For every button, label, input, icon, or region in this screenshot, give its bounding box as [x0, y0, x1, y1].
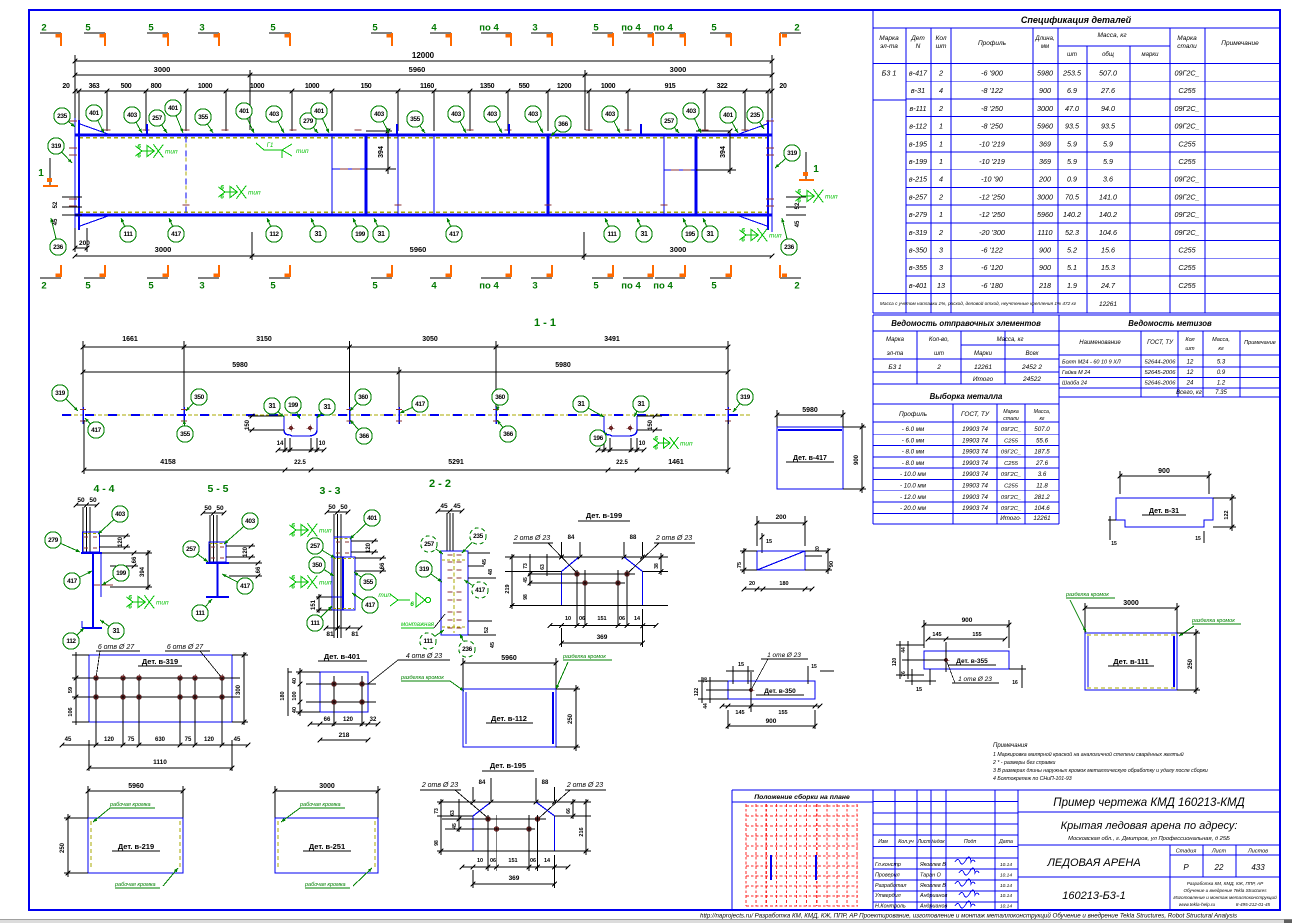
- svg-text:2 отв Ø 23: 2 отв Ø 23: [566, 782, 603, 789]
- svg-text:10.14: 10.14: [1000, 872, 1012, 878]
- 1-1 left pocket channel: [284, 416, 317, 436]
- svg-text:5: 5: [85, 281, 91, 292]
- svg-text:тип: тип: [769, 233, 782, 240]
- svg-text:363: 363: [89, 83, 100, 90]
- svg-text:106: 106: [68, 707, 74, 716]
- svg-text:81: 81: [351, 631, 359, 638]
- svg-text:122: 122: [694, 688, 700, 697]
- svg-text:С255: С255: [1178, 246, 1196, 255]
- stiffener connection right pair: [664, 169, 696, 171]
- svg-text:19903 74: 19903 74: [962, 449, 988, 456]
- svg-text:6: 6: [291, 523, 295, 530]
- svg-text:111: 111: [311, 620, 321, 627]
- svg-text:Р: Р: [1183, 863, 1189, 872]
- svg-text:195: 195: [685, 231, 695, 238]
- svg-text:218: 218: [1038, 281, 1051, 290]
- svg-text:Дет. в-401: Дет. в-401: [324, 652, 360, 661]
- detail v-355 right dim 16: [1009, 668, 1026, 670]
- svg-text:Марка: Марка: [886, 337, 905, 343]
- 2-2 main box: [441, 551, 468, 635]
- detail v-319 bottom dims: [62, 744, 248, 746]
- svg-text:по 4: по 4: [621, 23, 641, 34]
- svg-text:Марки: Марки: [974, 351, 993, 357]
- svg-text:С255: С255: [1004, 461, 1019, 467]
- svg-text:разделка кромок: разделка кромок: [562, 654, 606, 660]
- svg-text:06: 06: [579, 616, 585, 622]
- svg-text:5.9: 5.9: [1067, 139, 1077, 148]
- svg-text:Наименование: Наименование: [1079, 340, 1121, 346]
- title area main: [1017, 790, 1019, 910]
- svg-text:369: 369: [1039, 157, 1051, 166]
- svg-text:06: 06: [490, 858, 496, 864]
- detail v-199 group: [505, 511, 695, 647]
- svg-text:-6 '120: -6 '120: [981, 263, 1003, 272]
- svg-text:-12 '250: -12 '250: [979, 192, 1005, 201]
- svg-text:тип: тип: [319, 580, 332, 587]
- detail v-319 total dim 1110: [88, 740, 90, 771]
- 4-4 dim 120: [99, 535, 130, 537]
- svg-text:52644-2006: 52644-2006: [1145, 360, 1177, 366]
- detail v-195 top dims 84 88: [472, 787, 474, 801]
- svg-text:15: 15: [811, 664, 817, 670]
- spec table footer: [873, 312, 1280, 314]
- detail v-199 top dims 84 88: [561, 542, 563, 556]
- svg-text:шт: шт: [1067, 52, 1077, 58]
- svg-text:в-350: в-350: [909, 246, 927, 255]
- svg-text:1661: 1661: [122, 336, 138, 343]
- svg-text:394: 394: [140, 566, 146, 577]
- svg-text:2: 2: [938, 69, 943, 78]
- svg-text:250: 250: [60, 842, 66, 853]
- svg-text:Лист: Лист: [1211, 849, 1227, 855]
- svg-text:322: 322: [717, 83, 728, 90]
- svg-text:1000: 1000: [250, 83, 265, 90]
- svg-text:401: 401: [314, 108, 324, 115]
- svg-text:эл-та: эл-та: [887, 351, 904, 357]
- svg-text:73: 73: [434, 808, 440, 814]
- svg-text:151: 151: [597, 616, 606, 622]
- detail v-195 right dims: [555, 815, 591, 817]
- svg-text:900: 900: [766, 718, 777, 725]
- svg-text:20: 20: [779, 83, 787, 90]
- svg-text:8-495-212-01-45: 8-495-212-01-45: [1236, 902, 1271, 907]
- svg-text:50: 50: [204, 505, 212, 512]
- svg-text:47.0: 47.0: [1065, 104, 1079, 113]
- detail circles below beam: [51, 218, 56, 239]
- svg-text:в-195: в-195: [909, 139, 928, 148]
- svg-text:06: 06: [530, 858, 536, 864]
- svg-text:Гайка М 24: Гайка М 24: [1062, 369, 1090, 376]
- 2-2 bolt rows: [447, 554, 452, 556]
- svg-text:19903 74: 19903 74: [962, 483, 988, 490]
- svg-text:Выборка металла: Выборка металла: [930, 392, 1003, 401]
- svg-text:в-257: в-257: [909, 192, 928, 201]
- svg-text:31: 31: [707, 231, 714, 238]
- svg-text:355: 355: [180, 431, 190, 438]
- svg-text:в-199: в-199: [909, 157, 927, 166]
- svg-text:1000: 1000: [198, 83, 213, 90]
- svg-text:319: 319: [51, 143, 61, 150]
- svg-text:тип: тип: [165, 149, 178, 156]
- svg-text:в-111: в-111: [909, 104, 926, 113]
- svg-text:2: 2: [794, 23, 799, 34]
- detail v-401 left dims: [296, 671, 320, 673]
- svg-text:900: 900: [1039, 263, 1051, 272]
- svg-text:50: 50: [328, 504, 336, 511]
- svg-text:40: 40: [292, 707, 298, 713]
- svg-text:15: 15: [738, 662, 744, 668]
- svg-text:630: 630: [155, 737, 166, 743]
- svg-text:Ведомость отправочных элементо: Ведомость отправочных элементов: [891, 319, 1041, 328]
- svg-text:417: 417: [171, 231, 181, 238]
- svg-text:Кол-во,: Кол-во,: [929, 337, 949, 343]
- svg-text:09Г2С_: 09Г2С_: [1174, 122, 1199, 131]
- 1-1 right pocket weld: [659, 442, 670, 444]
- detail v-31 plate: [1116, 498, 1213, 527]
- svg-text:1: 1: [939, 139, 943, 148]
- svg-text:Таран О: Таран О: [920, 872, 942, 878]
- svg-text:403: 403: [245, 518, 255, 525]
- svg-text:2: 2: [938, 192, 943, 201]
- svg-text:31: 31: [641, 231, 648, 238]
- svg-text:187.5: 187.5: [1034, 449, 1050, 456]
- svg-text:180: 180: [779, 581, 788, 587]
- beam top flange: [75, 134, 772, 137]
- svg-text:88: 88: [542, 780, 549, 786]
- svg-text:3: 3: [532, 281, 537, 292]
- svg-text:06: 06: [619, 616, 625, 622]
- svg-text:40: 40: [292, 678, 298, 684]
- 3-3 weld bottom: [296, 581, 307, 583]
- 1-1 left pocket circles: [278, 412, 284, 417]
- svg-text:5: 5: [148, 281, 154, 292]
- svg-text:5960: 5960: [501, 655, 517, 662]
- detail v-31 right dim 122: [1213, 497, 1236, 499]
- svg-text:45: 45: [523, 577, 529, 583]
- svg-text:4: 4: [939, 175, 943, 184]
- svg-text:45: 45: [490, 642, 496, 648]
- beam left end gusset diagonals: [80, 124, 108, 134]
- svg-text:45: 45: [440, 503, 448, 510]
- svg-text:3: 3: [939, 246, 943, 255]
- svg-text:155: 155: [778, 710, 787, 716]
- svg-text:31: 31: [578, 401, 585, 408]
- svg-text:Дет. в-31: Дет. в-31: [1149, 508, 1179, 515]
- metal selection table: [873, 384, 1059, 524]
- svg-text:7.35: 7.35: [1215, 390, 1227, 396]
- svg-text:3: 3: [532, 23, 537, 34]
- svg-text:2 отв Ø 23: 2 отв Ø 23: [655, 535, 692, 542]
- svg-text:1461: 1461: [668, 459, 684, 466]
- svg-text:шт: шт: [936, 43, 947, 50]
- svg-text:12261: 12261: [1033, 515, 1050, 522]
- svg-text:3000: 3000: [670, 65, 687, 74]
- svg-text:Дет. в-319: Дет. в-319: [142, 657, 178, 666]
- 3-3 dim 66: [355, 557, 386, 559]
- svg-text:257: 257: [186, 546, 196, 553]
- bottom dimension row 3000 5960 3000: [251, 232, 253, 260]
- svg-text:Московская обл., г. Дмитров, у: Московская обл., г. Дмитров, ул Професси…: [1068, 836, 1230, 842]
- svg-text:09Г2С_: 09Г2С_: [1174, 104, 1199, 113]
- svg-text:915: 915: [665, 83, 676, 90]
- svg-text:507.0: 507.0: [1034, 426, 1050, 433]
- 1-1 right pocket channel: [604, 416, 637, 436]
- svg-text:13: 13: [937, 281, 945, 290]
- svg-text:900: 900: [1158, 468, 1170, 475]
- svg-text:10.14: 10.14: [1000, 883, 1012, 889]
- svg-text:257: 257: [424, 541, 434, 548]
- svg-text:20: 20: [815, 546, 821, 552]
- 3-3 top channel box: [334, 537, 351, 557]
- svg-text:5980: 5980: [232, 362, 248, 369]
- svg-text:403: 403: [451, 111, 461, 118]
- svg-text:3000: 3000: [155, 245, 172, 254]
- detail v-112 dim 5960: [462, 658, 464, 692]
- svg-text:120: 120: [892, 658, 898, 667]
- svg-text:19903 74: 19903 74: [962, 494, 988, 501]
- svg-text:- 6.0 мм: - 6.0 мм: [902, 437, 925, 444]
- svg-text:09Г2С_: 09Г2С_: [1001, 472, 1021, 478]
- svg-text:369: 369: [509, 875, 520, 882]
- svg-text:Проверил: Проверил: [875, 872, 900, 878]
- svg-text:84: 84: [568, 535, 575, 541]
- svg-text:417: 417: [365, 602, 375, 609]
- svg-text:12261: 12261: [974, 364, 992, 371]
- detail dimension row: [75, 90, 772, 92]
- svg-text:6: 6: [137, 153, 141, 160]
- svg-text:66: 66: [256, 566, 262, 573]
- fasteners table: [1059, 315, 1280, 397]
- svg-text:417: 417: [91, 427, 101, 434]
- svg-text:48: 48: [488, 569, 494, 575]
- svg-text:31: 31: [638, 401, 645, 408]
- 2-2 center weld line: [453, 553, 455, 633]
- svg-text:5.3: 5.3: [1217, 360, 1226, 366]
- svg-text:3: 3: [199, 281, 204, 292]
- 4-4 web: [92, 553, 94, 628]
- gusset plate: [757, 551, 805, 570]
- svg-text:в-279: в-279: [909, 210, 927, 219]
- svg-text:4: 4: [939, 86, 943, 95]
- svg-text:Андрианов: Андрианов: [919, 893, 948, 899]
- svg-text:рабочая кромка: рабочая кромка: [109, 802, 151, 808]
- svg-text:417: 417: [240, 583, 250, 590]
- svg-text:Б3 1: Б3 1: [888, 364, 902, 371]
- svg-text:401: 401: [239, 108, 249, 115]
- svg-text:75: 75: [185, 737, 192, 743]
- svg-text:5: 5: [148, 23, 154, 34]
- svg-text:5.9: 5.9: [1103, 157, 1113, 166]
- svg-text:319: 319: [740, 394, 750, 401]
- svg-text:403: 403: [115, 511, 125, 518]
- 3-3 weld top: [296, 529, 307, 531]
- svg-text:разделка кромок: разделка кромок: [1191, 618, 1235, 624]
- svg-text:-6 '122: -6 '122: [981, 246, 1003, 255]
- 1-1 member circles: [66, 399, 78, 411]
- svg-text:5: 5: [270, 281, 276, 292]
- svg-text:по 4: по 4: [479, 281, 499, 292]
- svg-text:09Г2С_: 09Г2С_: [1174, 69, 1199, 78]
- svg-text:12: 12: [1187, 370, 1194, 376]
- svg-text:4158: 4158: [160, 459, 176, 466]
- svg-text:монтажная: монтажная: [401, 622, 435, 628]
- svg-text:250: 250: [568, 713, 574, 724]
- svg-text:1000: 1000: [305, 83, 320, 90]
- spec table row lines: [906, 80, 1280, 82]
- svg-text:5: 5: [372, 23, 378, 34]
- svg-text:55.6: 55.6: [1036, 437, 1049, 444]
- 5-5 dim 120: [226, 545, 255, 547]
- svg-text:в-319: в-319: [909, 228, 927, 237]
- svg-text:5980: 5980: [1037, 69, 1053, 78]
- detail v-350 plate: [728, 681, 815, 699]
- detail v-111 plate: [1085, 633, 1177, 690]
- svg-text:4 Болтокрепеж по СНиП-101-93: 4 Болтокрепеж по СНиП-101-93: [993, 776, 1072, 782]
- assembly position red grid: [745, 804, 747, 906]
- detail v-199 total 369: [561, 628, 563, 647]
- svg-text:319: 319: [55, 390, 65, 397]
- svg-text:417: 417: [415, 401, 425, 408]
- svg-text:22: 22: [1214, 863, 1224, 872]
- detail v-350 top dims: [732, 666, 734, 684]
- svg-text:200: 200: [1038, 175, 1051, 184]
- signature table: [894, 790, 896, 910]
- svg-text:С255: С255: [1178, 157, 1196, 166]
- svg-text:4: 4: [431, 281, 437, 292]
- svg-text:550: 550: [519, 83, 530, 90]
- svg-text:250: 250: [1188, 658, 1194, 669]
- svg-text:112: 112: [269, 231, 279, 238]
- svg-text:5291: 5291: [448, 459, 464, 466]
- 3-3 circles: [350, 524, 366, 539]
- svg-text:Спецификация деталей: Спецификация деталей: [1021, 15, 1132, 25]
- svg-text:366: 366: [359, 433, 369, 440]
- svg-text:31: 31: [113, 628, 120, 635]
- svg-text:350: 350: [194, 394, 204, 401]
- section cut 1 left: [49, 158, 51, 186]
- gusset dim 200: [756, 516, 758, 546]
- svg-text:09Г2С_: 09Г2С_: [1174, 192, 1199, 201]
- svg-text:по 4: по 4: [621, 281, 641, 292]
- svg-text:120: 120: [118, 536, 124, 547]
- svg-text:09Г2С_: 09Г2С_: [1174, 228, 1199, 237]
- svg-text:52.3: 52.3: [1065, 228, 1079, 237]
- svg-text:- 8.0 мм: - 8.0 мм: [902, 449, 925, 456]
- svg-text:14: 14: [277, 441, 284, 447]
- section 3-3 group: [289, 485, 386, 638]
- svg-text:Масса, кг: Масса, кг: [1097, 32, 1127, 39]
- 4-4 top flange line: [81, 552, 102, 554]
- svg-text:300: 300: [236, 684, 242, 695]
- 4-4 dim 50 50: [76, 504, 97, 506]
- detail v-401 bolts: [332, 682, 337, 687]
- svg-text:401: 401: [89, 110, 99, 117]
- svg-text:6: 6: [410, 601, 414, 608]
- svg-text:507.0: 507.0: [1099, 69, 1117, 78]
- svg-text:тип: тип: [156, 600, 169, 607]
- svg-text:09Г2С_: 09Г2С_: [1001, 450, 1021, 456]
- 5-5 circles: [224, 526, 244, 544]
- svg-text:в-355: в-355: [909, 263, 928, 272]
- svg-text:180: 180: [280, 691, 286, 700]
- svg-text:257: 257: [152, 115, 162, 122]
- svg-text:15: 15: [766, 539, 772, 545]
- detail v-111 right dim 250: [1177, 632, 1200, 634]
- svg-text:Разработка КМ, КМД, КЖ, ППР, А: Разработка КМ, КМД, КЖ, ППР, АР: [1187, 881, 1264, 886]
- svg-text:218: 218: [339, 732, 350, 739]
- svg-text:1 отв Ø 23: 1 отв Ø 23: [958, 676, 992, 683]
- 2-2 circles: [436, 549, 443, 554]
- weld symbol top middle: [256, 143, 264, 150]
- svg-text:281.2: 281.2: [1033, 494, 1050, 501]
- svg-text:16: 16: [1012, 680, 1018, 686]
- svg-text:рабочая кромка: рабочая кромка: [114, 882, 156, 888]
- svg-text:1: 1: [939, 210, 943, 219]
- svg-text:1: 1: [939, 122, 943, 131]
- svg-text:800: 800: [151, 83, 162, 90]
- svg-text:45: 45: [482, 559, 488, 565]
- svg-text:73: 73: [523, 563, 529, 569]
- svg-text:394: 394: [720, 146, 727, 158]
- svg-text:Примечание: Примечание: [1244, 340, 1276, 346]
- detail v-195 bolts: [486, 817, 491, 822]
- svg-text:98: 98: [523, 594, 529, 600]
- svg-text:257: 257: [310, 543, 320, 550]
- svg-text:1 отв Ø 23: 1 отв Ø 23: [767, 652, 801, 659]
- detail v-355 group: [892, 617, 1026, 693]
- svg-text:5980: 5980: [802, 407, 818, 414]
- svg-text:32: 32: [370, 717, 377, 723]
- svg-text:150: 150: [648, 419, 654, 430]
- svg-text:216: 216: [579, 827, 585, 836]
- svg-text:тип: тип: [825, 194, 838, 201]
- svg-text:52646-2006: 52646-2006: [1145, 381, 1177, 387]
- svg-text:кг: кг: [1039, 416, 1044, 422]
- detail v-319 horizontal bolt lines: [72, 677, 240, 679]
- svg-text:93.5: 93.5: [1101, 122, 1116, 131]
- detail v-319 plate: [89, 655, 232, 722]
- detail v-199 right dim 38: [643, 571, 668, 573]
- svg-text:ЛЕДОВАЯ АРЕНА: ЛЕДОВАЯ АРЕНА: [1046, 857, 1140, 869]
- svg-text:2: 2: [41, 23, 46, 34]
- svg-text:403: 403: [269, 111, 279, 118]
- dimension 394 left: [366, 130, 392, 132]
- svg-text:111: 111: [424, 638, 434, 645]
- 1-1 right pocket circles: [588, 408, 604, 417]
- svg-text:-12 '250: -12 '250: [979, 210, 1005, 219]
- svg-text:50: 50: [89, 497, 97, 504]
- svg-text:5.1: 5.1: [1067, 263, 1077, 272]
- 1-1 right pocket dims: [637, 415, 662, 417]
- svg-text:14: 14: [544, 858, 551, 864]
- detail v-401 bottom dims: [310, 723, 378, 725]
- svg-text:19903 74: 19903 74: [962, 505, 988, 512]
- svg-text:394: 394: [378, 146, 385, 158]
- svg-text:6: 6: [128, 604, 132, 611]
- svg-text:- 12.0 мм: - 12.0 мм: [900, 494, 927, 501]
- svg-text:Андрианов: Андрианов: [919, 904, 948, 910]
- svg-text:-8 '250: -8 '250: [981, 122, 1003, 131]
- svg-text:- 20.0 мм: - 20.0 мм: [900, 505, 927, 512]
- detail v-195 left dims: [437, 815, 473, 817]
- detail v-195 group: [420, 761, 606, 888]
- svg-text:155: 155: [972, 632, 981, 638]
- detail v-31 group: [1108, 468, 1236, 547]
- svg-text:145: 145: [932, 632, 941, 638]
- svg-text:98: 98: [434, 840, 440, 846]
- 4-4 weld symbol: [133, 601, 144, 603]
- svg-text:2 отв Ø 23: 2 отв Ø 23: [513, 535, 550, 542]
